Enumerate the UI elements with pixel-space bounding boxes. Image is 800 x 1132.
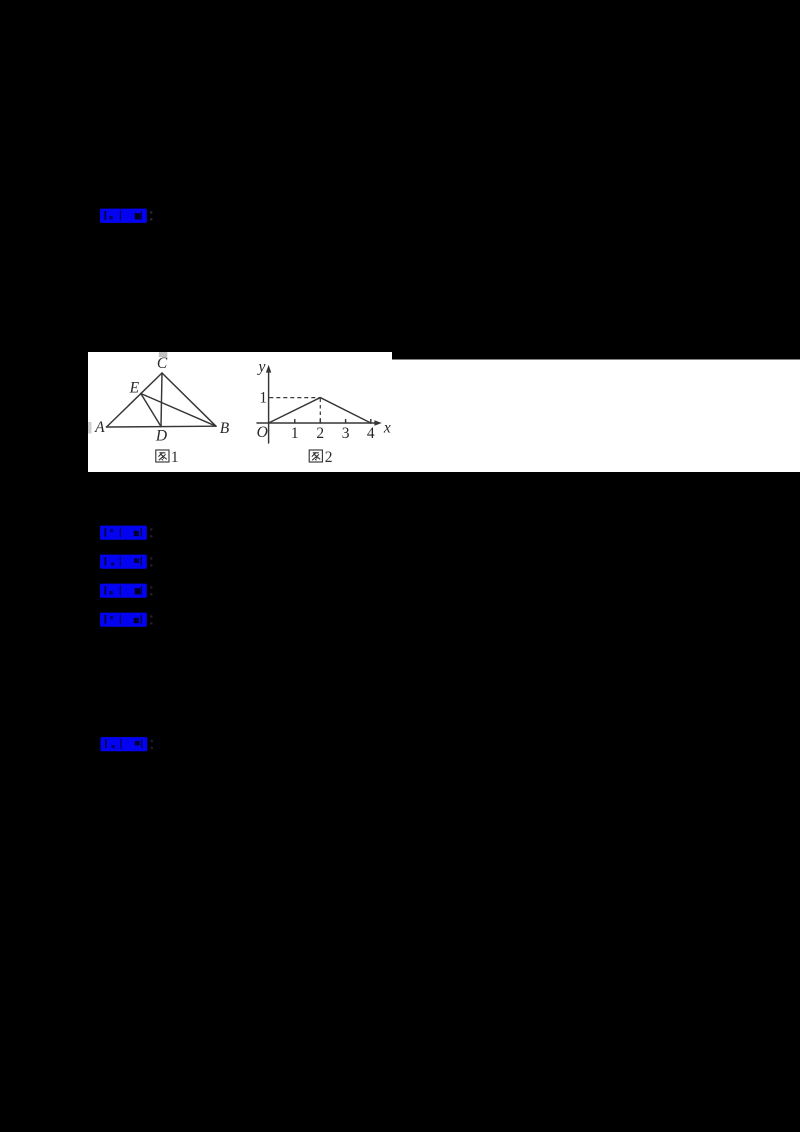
tick 1: [294, 420, 296, 423]
svg-text:1: 1: [259, 390, 267, 407]
tick 4: [370, 420, 372, 423]
wire segment EB: [141, 394, 216, 427]
label 【专题】 row: [100, 555, 153, 569]
y-axis arrowhead: [266, 365, 271, 373]
white figure band (wide part): [88, 360, 800, 473]
y-axis: [268, 370, 270, 443]
caption 图2: [309, 449, 332, 466]
gray artifact top of figure: [159, 352, 168, 357]
svg-text:1: 1: [291, 425, 299, 442]
wire side CB: [162, 373, 216, 426]
caption 图1: [156, 449, 179, 466]
wire cevian CD: [161, 373, 162, 427]
svg-text:B: B: [220, 420, 230, 437]
label 【解答】 row: [100, 613, 153, 627]
tick 3: [345, 420, 347, 423]
svg-text:A: A: [94, 419, 105, 436]
label 【答案】 row: [100, 209, 153, 223]
dashed guide horizontal: [269, 397, 319, 399]
svg-text:O: O: [257, 424, 268, 441]
label 【考点】 row: [100, 526, 153, 540]
axis labels: [257, 359, 391, 443]
wire side AC: [107, 373, 163, 427]
graph polyline: [269, 398, 371, 423]
svg-text:2: 2: [316, 425, 324, 442]
dashed guide vertical: [319, 399, 321, 423]
svg-text:4: 4: [367, 425, 375, 442]
svg-text:C: C: [157, 355, 168, 372]
x-axis arrowhead: [374, 420, 381, 425]
svg-text:1: 1: [171, 449, 179, 466]
wire side AB: [107, 425, 217, 428]
white figure box (left, taller part): [88, 352, 392, 472]
label 【点评】 row: [101, 737, 154, 751]
svg-text:2: 2: [325, 449, 333, 466]
label 【分析】 row: [100, 584, 153, 598]
wire segment ED: [141, 394, 161, 427]
node labels figure 1: [94, 355, 230, 445]
svg-text:E: E: [129, 379, 140, 396]
svg-text:3: 3: [342, 425, 350, 442]
gray artifact left edge near A: [88, 422, 92, 434]
svg-text:D: D: [155, 428, 167, 445]
tick 2: [319, 420, 321, 423]
svg-text:x: x: [383, 420, 391, 437]
x-axis: [257, 422, 376, 424]
svg-text:y: y: [257, 359, 266, 376]
